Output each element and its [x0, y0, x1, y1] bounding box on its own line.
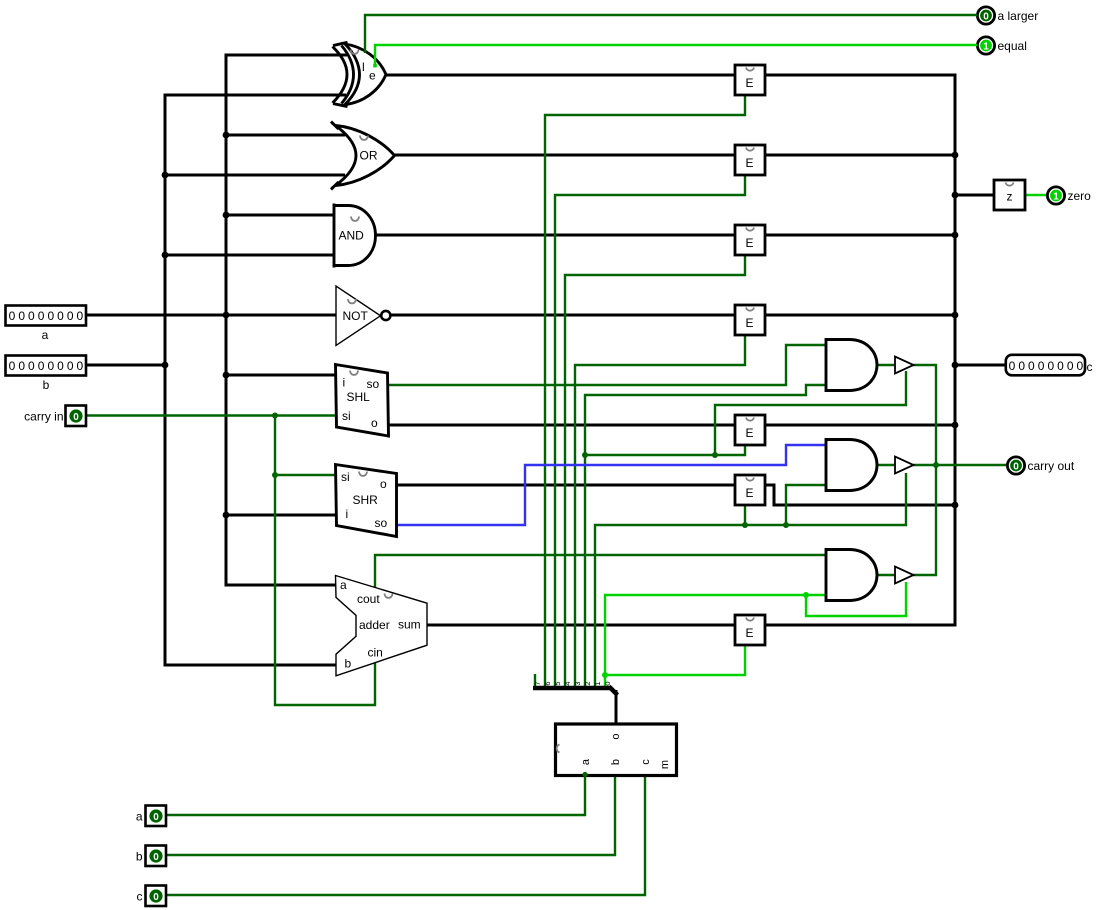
svg-text:b: b [610, 759, 622, 765]
svg-text:adder: adder [359, 618, 390, 632]
svg-text:a: a [136, 810, 143, 824]
svg-text:NOT: NOT [343, 309, 369, 323]
svg-text:E: E [746, 486, 754, 500]
svg-text:o: o [371, 416, 378, 430]
svg-text:0: 0 [983, 11, 989, 22]
svg-text:carry in: carry in [24, 410, 63, 424]
svg-text:equal: equal [998, 39, 1027, 53]
svg-text:E: E [746, 236, 754, 250]
svg-text:0: 0 [73, 412, 79, 423]
svg-text:E: E [746, 626, 754, 640]
svg-text:7: 7 [533, 681, 542, 685]
svg-text:a: a [580, 758, 592, 765]
svg-text:z: z [1007, 190, 1013, 204]
svg-text:carry out: carry out [1028, 459, 1075, 473]
svg-text:m: m [659, 760, 671, 769]
svg-text:6: 6 [543, 681, 552, 685]
svg-text:c: c [1087, 360, 1093, 374]
svg-text:o: o [380, 477, 387, 491]
svg-text:e: e [369, 69, 376, 83]
svg-text:cout: cout [357, 592, 380, 606]
svg-text:sum: sum [398, 618, 421, 632]
svg-text:1: 1 [593, 681, 602, 685]
svg-text:0: 0 [153, 892, 159, 903]
svg-text:a: a [42, 328, 49, 342]
svg-text:i: i [343, 376, 346, 390]
svg-text:b: b [43, 378, 50, 392]
svg-text:c: c [137, 890, 143, 904]
svg-text:cin: cin [368, 646, 383, 660]
svg-text:0: 0 [1013, 461, 1019, 472]
svg-text:2: 2 [583, 681, 592, 685]
svg-text:1: 1 [983, 41, 989, 52]
svg-text:l: l [362, 60, 365, 74]
svg-text:zero: zero [1068, 189, 1092, 203]
svg-text:3: 3 [573, 681, 582, 685]
svg-text:5: 5 [553, 681, 562, 685]
svg-text:4: 4 [563, 681, 572, 685]
svg-text:a: a [340, 578, 347, 592]
svg-text:so: so [375, 516, 388, 530]
svg-text:c: c [640, 759, 652, 765]
svg-text:E: E [746, 316, 754, 330]
svg-text:0: 0 [153, 812, 159, 823]
svg-text:si: si [341, 470, 350, 484]
svg-text:i: i [346, 507, 349, 521]
svg-text:SHR: SHR [353, 493, 379, 507]
svg-text:OR: OR [360, 149, 378, 163]
svg-text:E: E [746, 76, 754, 90]
svg-text:E: E [746, 156, 754, 170]
svg-text:0: 0 [153, 852, 159, 863]
svg-text:E: E [746, 426, 754, 440]
svg-text:si: si [342, 409, 351, 423]
svg-text:b: b [136, 850, 143, 864]
svg-text:SHL: SHL [347, 390, 371, 404]
svg-text:so: so [367, 377, 380, 391]
svg-text:0: 0 [603, 681, 612, 685]
svg-text:a larger: a larger [998, 9, 1039, 23]
svg-text:b: b [345, 657, 352, 671]
svg-text:o: o [610, 733, 622, 739]
svg-text:1: 1 [1053, 191, 1059, 202]
svg-text:AND: AND [339, 229, 365, 243]
